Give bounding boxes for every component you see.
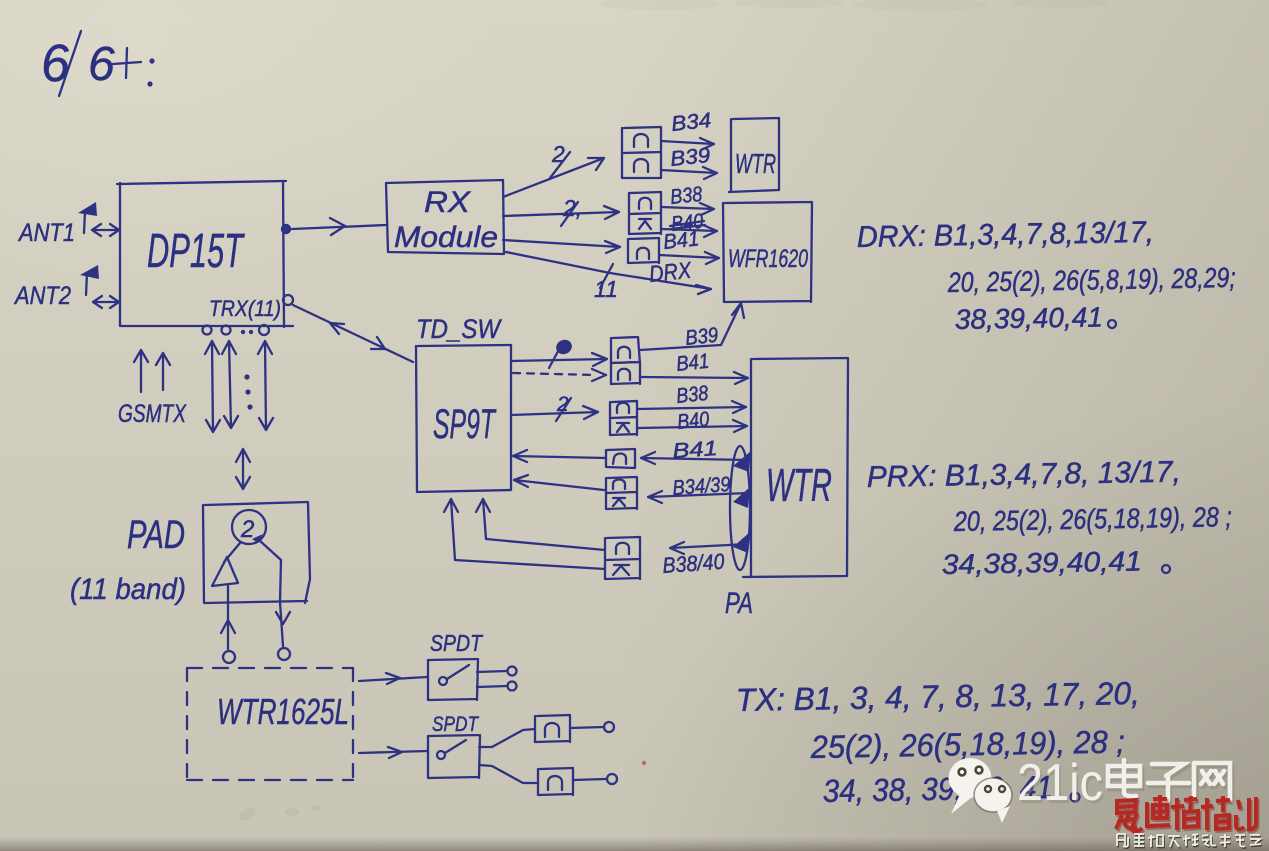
pin TRX port 2 xyxy=(222,326,231,335)
wire PAD right output to terminal xyxy=(276,602,290,660)
filter FL9 B38/40 (diplexer) xyxy=(605,537,640,579)
wire FL11 to terminal xyxy=(573,774,617,784)
wire RX out4 DRX (11x) xyxy=(506,252,711,302)
wire GSMTX arrow 1 xyxy=(134,350,148,392)
svg-text:38,39,40,41: 38,39,40,41 xyxy=(955,301,1104,335)
wire DP15T to RX Module xyxy=(292,218,386,235)
pin TRX port n xyxy=(259,325,269,335)
block U7 WTR (main transceiver) xyxy=(743,358,848,577)
antenna ANT1 xyxy=(17,202,97,247)
svg-text:B34/39: B34/39 xyxy=(672,473,732,500)
wire FL6 to WTR (B38) xyxy=(637,401,746,413)
watermark char dian (electric) xyxy=(1108,760,1142,799)
svg-text:DRX: B1,3,4,7,8,13/17,: DRX: B1,3,4,7,8,13/17, xyxy=(857,216,1155,254)
wire FL5 to WTR (B41) xyxy=(640,372,748,384)
svg-text:SP9T: SP9T xyxy=(433,400,497,447)
wire ANT2 to DP15T (bidirectional) xyxy=(93,296,119,308)
block PAD (11 band power amplifier+duplexer) xyxy=(70,502,310,606)
svg-text:PRX: B1,3,4,7,8, 13/17,: PRX: B1,3,4,7,8, 13/17, xyxy=(867,456,1182,494)
filter FL5 B41 xyxy=(611,364,640,384)
wire FL10 to terminal xyxy=(570,722,614,732)
watermark char zi (child) xyxy=(1148,764,1191,805)
svg-text:GSMTX: GSMTX xyxy=(118,400,187,428)
wire FL1 to WTR (B34) xyxy=(661,138,714,150)
watermark 21ic text xyxy=(1017,754,1105,815)
svg-text:B40: B40 xyxy=(676,408,710,434)
svg-text:B38: B38 xyxy=(675,382,709,408)
svg-text:6: 6 xyxy=(88,38,115,91)
watermark WeChat logo big bubble xyxy=(949,758,992,814)
svg-text:B38/40: B38/40 xyxy=(662,549,726,578)
watermark WeChat logo small bubble xyxy=(974,778,1012,823)
PA arrow 1 xyxy=(733,451,751,472)
wire WTR to SP9T (B41 reverse) left arrow xyxy=(513,450,606,462)
wire WTR1625L to SPDT1 xyxy=(359,673,427,684)
svg-text:20, 25(2), 26(5,18,19), 28 ;: 20, 25(2), 26(5,18,19), 28 ; xyxy=(953,501,1232,537)
wire SP9T out1 xyxy=(511,342,607,368)
svg-text:WFR1620: WFR1620 xyxy=(728,245,808,273)
wire PAD right branch xyxy=(259,540,281,602)
block U4 WTR (diversity receiver) xyxy=(729,118,779,192)
wire TRX bidirectional 2 xyxy=(222,341,238,428)
wire TRX bidirectional 3 xyxy=(258,341,273,430)
svg-text:B34: B34 xyxy=(670,109,712,136)
wire B39 feed into WFR1620 bottom xyxy=(721,303,744,345)
title 6/6+ xyxy=(39,31,155,96)
wire SPDT1 output B xyxy=(477,682,517,691)
wire WTR oval to FL8 xyxy=(648,491,749,503)
filter FL2 B38/B40 (diplexer) xyxy=(629,192,661,234)
pin TRX port 1 xyxy=(203,326,212,335)
wire GSMTX arrow 2 xyxy=(156,353,170,390)
svg-text:TD_SW: TD_SW xyxy=(416,314,502,344)
block U3 RX Module xyxy=(386,180,504,254)
switch SW1 SPDT xyxy=(428,659,478,700)
svg-text:B38: B38 xyxy=(669,183,703,209)
wire FL9 upper to SP9T bottom xyxy=(476,499,605,550)
antenna ANT2 xyxy=(13,265,99,310)
filter FL3 B41 xyxy=(628,238,659,263)
filter FL10 xyxy=(535,715,570,742)
block U6 SP9T (TDD switch) xyxy=(416,345,511,492)
wire ANT1 to DP15T (bidirectional) xyxy=(92,224,119,236)
watermark char wang (net) xyxy=(1194,763,1232,803)
block U1 DP15T (antenna switch) xyxy=(117,181,293,327)
watermark slogan 射频和天线设计专家 xyxy=(1117,834,1262,849)
filter FL6 B38/B40 (diplexer) xyxy=(610,401,637,435)
svg-text:21ic: 21ic xyxy=(1017,754,1103,812)
svg-text:SPDT: SPDT xyxy=(430,630,484,656)
label B40 (scribbled) xyxy=(670,210,705,236)
svg-text:WTR: WTR xyxy=(766,459,832,511)
PA loop oval on WTR input xyxy=(730,446,750,570)
amplifier triangle inside PAD xyxy=(212,543,240,586)
filter FL7 B41 (rx) xyxy=(606,449,635,468)
wire PAD left output to terminal xyxy=(221,586,235,663)
wire FL1 to WTR (B39) xyxy=(661,167,717,179)
svg-text:(11 band): (11 band) xyxy=(70,573,186,606)
wire WTR oval to FL7 (B41) xyxy=(641,452,749,464)
wire FL4 to WFR1620 (B39) xyxy=(640,345,721,350)
svg-text:ANT2: ANT2 xyxy=(13,282,71,310)
svg-text:RX: RX xyxy=(424,186,471,219)
wire FL2 to WFR1620 (B38) xyxy=(661,203,714,215)
filter FL4 B39 xyxy=(611,337,640,364)
wire WTR1625L to SPDT2 xyxy=(359,747,427,758)
ellipsis dots on TRX bus xyxy=(241,330,253,334)
block U2 WTR1625L (transceiver, dashed) xyxy=(187,668,353,780)
wire SP9T out2 (2x) xyxy=(511,393,598,421)
note DRX band list line 3 xyxy=(955,301,1116,335)
svg-text:34,38,39,40,41: 34,38,39,40,41 xyxy=(942,546,1143,580)
svg-text:B41: B41 xyxy=(672,437,718,463)
svg-text:B41: B41 xyxy=(675,350,710,376)
svg-text:11: 11 xyxy=(594,276,618,302)
note TX band list line 3 xyxy=(822,769,1079,809)
switch rotor inside PAD xyxy=(232,510,266,544)
svg-text:B41: B41 xyxy=(662,227,700,254)
svg-text:DRX: DRX xyxy=(648,257,694,287)
wire WTR oval to FL9 (B38/40) xyxy=(670,542,748,554)
ink blob on out1 xyxy=(554,337,574,356)
filter FL8 B34/39 (diplexer) xyxy=(606,477,637,509)
switch SW2 SPDT xyxy=(428,735,480,778)
wire FL2 to WFR1620 (B40) xyxy=(661,225,717,237)
wire RX out1 (2x) xyxy=(503,141,604,197)
ellipsis dots TRX lines xyxy=(244,374,252,409)
svg-text:PAD: PAD xyxy=(127,513,185,557)
PA arrow 2 xyxy=(733,487,750,508)
note PRX band list line 3 xyxy=(942,546,1170,580)
wire FL9 lower to SP9T bottom xyxy=(444,499,605,569)
wire FL6 to WTR (B40) xyxy=(637,420,747,432)
wire SPDT2 to filter FL11 xyxy=(479,765,538,783)
svg-text:ANT1: ANT1 xyxy=(17,219,75,247)
node RX output (filled) xyxy=(281,224,291,234)
block U5 WFR1620 (receiver) xyxy=(723,202,812,302)
svg-text:WTR: WTR xyxy=(735,148,776,179)
svg-text:2,: 2, xyxy=(562,195,582,221)
pin TRX common xyxy=(283,295,293,305)
wire SPDT1 output A xyxy=(477,667,517,676)
wire RX out2 (2x) xyxy=(503,195,619,226)
svg-text:WTR1625L: WTR1625L xyxy=(217,691,349,732)
filter FL11 xyxy=(538,768,573,795)
wire RX out3 xyxy=(503,240,620,253)
watermark red training logo 易迪拓培训 xyxy=(1116,795,1258,833)
svg-text:DP15T: DP15T xyxy=(147,225,245,278)
wire DP15T to PAD (bidirectional) xyxy=(236,449,250,489)
wire TRX common to SP9T (bidirectional) xyxy=(293,305,413,362)
filter FL1 B34/B39 (diplexer) xyxy=(622,127,661,178)
wire TRX bidirectional 1 xyxy=(205,341,220,432)
svg-text:SPDT: SPDT xyxy=(432,713,480,736)
svg-text:TRX(11): TRX(11) xyxy=(209,296,281,321)
svg-text:20, 25(2), 26(5,8,19), 28,29;: 20, 25(2), 26(5,8,19), 28,29; xyxy=(947,262,1236,298)
wire SPDT2 to filter FL10 xyxy=(479,729,535,747)
svg-text:PA: PA xyxy=(725,587,753,620)
svg-text:TX: B1, 3, 4, 7, 8, 13, 17, 2: TX: B1, 3, 4, 7, 8, 13, 17, 20, xyxy=(735,675,1140,718)
wire SP9T dashed out to FL5 xyxy=(513,373,596,375)
wire WTR to SP9T (B34/39 reverse) xyxy=(514,475,604,490)
wire FL3 to WFR1620 (B41) xyxy=(659,252,719,264)
svg-text:6: 6 xyxy=(39,34,72,94)
svg-text:Module: Module xyxy=(394,221,498,254)
PA arrow 3 xyxy=(733,532,750,553)
